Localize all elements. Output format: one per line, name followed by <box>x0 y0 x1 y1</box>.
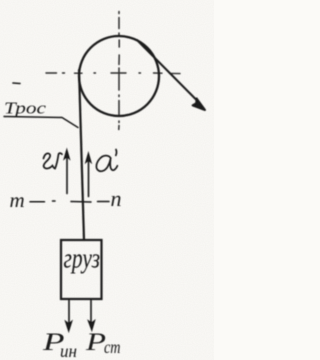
arrow P_st (right down arrow) <box>90 301 92 326</box>
arrow v (velocity) <box>66 153 68 194</box>
arrowhead of rope tension <box>193 98 205 110</box>
svg-text:Р: Р <box>85 329 106 356</box>
vertical centerline of pulley <box>118 12 120 130</box>
svg-text:груз: груз <box>64 242 101 275</box>
section line m-n <box>30 201 109 202</box>
svg-text:ст: ст <box>104 339 121 358</box>
wire: rope diagonal over pulley <box>137 40 198 102</box>
arrow a (acceleration) <box>88 156 90 197</box>
stray dash mark <box>13 82 20 85</box>
horizontal centerline of pulley <box>46 72 180 75</box>
load box <box>61 240 102 299</box>
svg-text:n: n <box>111 186 122 211</box>
svg-text:Трос: Трос <box>4 99 47 118</box>
svg-text:m: m <box>10 188 25 212</box>
wire: vertical rope to load <box>79 70 84 240</box>
label v <box>44 153 63 168</box>
svg-text:ин: ин <box>60 341 77 360</box>
arrow P_in (left down arrow) <box>68 301 70 325</box>
pulley circle <box>79 36 159 116</box>
label a <box>96 150 117 172</box>
leader line of label tros <box>4 117 78 128</box>
